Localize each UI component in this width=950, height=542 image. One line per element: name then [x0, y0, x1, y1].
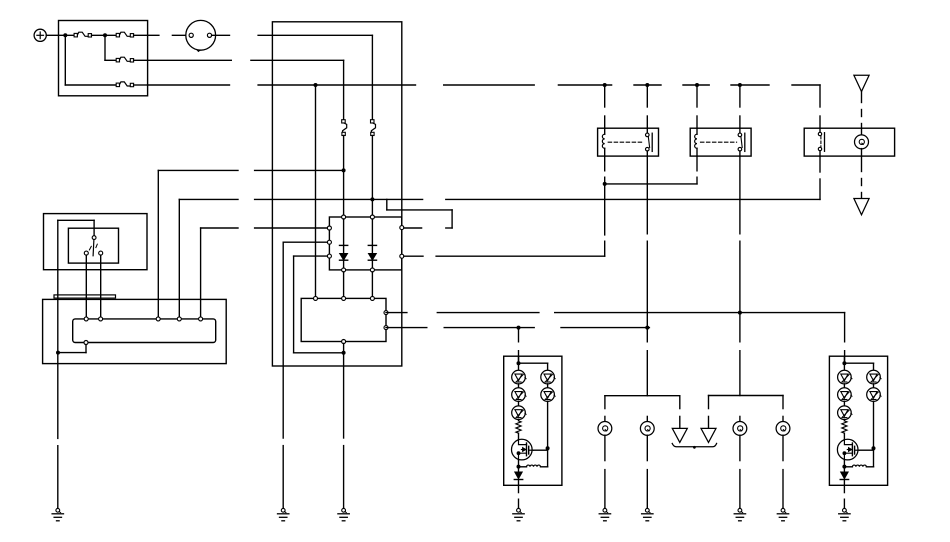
wire left cluster res link [518, 420, 520, 421]
wire bus drop to connector [315, 85, 317, 296]
wire relay2 coil out [696, 156, 698, 184]
tail bulb 3 [733, 422, 747, 436]
wire bulb 1 feed [604, 416, 606, 421]
right cluster source dot [842, 465, 846, 469]
ground G5 [642, 508, 653, 521]
switch contact L [84, 251, 88, 255]
LED right cluster L2 [838, 388, 852, 402]
wire row 3 [65, 84, 116, 86]
relay 2 contact [738, 128, 745, 156]
wire bulb 4 feed [782, 416, 784, 421]
diode box left pin 1 [327, 226, 331, 230]
wire battery to fuse box [46, 34, 58, 36]
diode box left pin 2 [327, 240, 331, 244]
under-hood fuse box [59, 21, 148, 96]
wire right cluster branch [844, 363, 873, 370]
left cluster high-mount lamp box [504, 356, 562, 485]
wire left cluster R12 [547, 384, 549, 388]
LED right cluster L3 [838, 406, 852, 420]
ground G1 [52, 508, 63, 521]
fuse F4 [116, 82, 133, 87]
wire connector bottom link [294, 352, 344, 354]
wire bulb bottom link [861, 156, 863, 198]
diode box bottom pin 2 [370, 268, 374, 272]
power bus [148, 84, 820, 86]
switch contact R [99, 251, 103, 255]
junction dot col1 [342, 168, 346, 172]
LED right cluster R1 [867, 370, 881, 384]
junction dot A [63, 33, 67, 37]
right cluster diode [840, 472, 848, 480]
connector bar [54, 295, 116, 298]
diode box right pin 1 [400, 226, 404, 230]
wire dotA down to row 3 [64, 35, 66, 85]
wire cluster right drop [844, 351, 846, 364]
wire left cluster coil link [519, 466, 527, 468]
ground node dot [56, 351, 60, 355]
marker triangle right [701, 428, 716, 442]
left cluster coil [527, 465, 541, 467]
bus junction node 5 [738, 83, 742, 87]
wire bulb 4 ground run [782, 435, 784, 508]
switch assembly connector box [73, 319, 216, 343]
wire switch feed L [58, 220, 94, 352]
ground G4 [599, 508, 610, 521]
wire ACC line [446, 198, 820, 200]
wire right cluster res link [843, 420, 845, 421]
wire bulb 2 ground run [646, 435, 648, 508]
ground G6 [734, 508, 745, 521]
left cluster MOSFET [512, 439, 534, 460]
LED left cluster R1 [541, 370, 555, 384]
left lamp bus [605, 396, 680, 409]
left cluster entry dot [517, 361, 521, 365]
wire left cluster ground run [518, 485, 520, 508]
wire left cluster entry [518, 356, 520, 370]
diode box top pin 2 [370, 215, 374, 219]
ground G3 [338, 508, 349, 521]
fuse F6 [371, 120, 376, 136]
left cluster source dot [517, 465, 521, 469]
wire fuse col1 top [343, 60, 345, 119]
wire diode pin3 left [294, 256, 328, 353]
wire col ground run 2 [282, 446, 284, 509]
brake switch [818, 128, 824, 156]
assembly bottom pin [84, 341, 88, 345]
fuse F5 [342, 120, 347, 136]
LED left cluster L1 [512, 370, 526, 384]
wire bulb 2 feed [646, 416, 648, 421]
right cluster MOSFET [837, 439, 859, 460]
wire left cluster branch [519, 363, 548, 370]
combination connector box [301, 298, 386, 341]
wire cluster left drop [518, 328, 520, 364]
relay 1 dashed link [608, 141, 644, 143]
wire left cluster L23 [518, 401, 520, 406]
switch lever [89, 240, 97, 256]
wire right cluster coil link [844, 466, 852, 468]
left cluster diode [514, 472, 522, 480]
wire diode2 to connector [371, 272, 373, 297]
wire bus to right box [819, 85, 821, 128]
wire diode pin2 left [283, 242, 327, 438]
junction dot bottom link [342, 351, 346, 355]
right lamp bus [709, 396, 784, 409]
wire right cluster R12 [873, 384, 875, 388]
wire relay1 coil feed [604, 85, 606, 128]
wire relay2 contact out [739, 156, 741, 395]
junction dot B [103, 33, 107, 37]
right cluster coil [852, 465, 866, 467]
diode box bottom pin 1 [342, 268, 346, 272]
wire coil link [605, 183, 697, 185]
LED left cluster L2 [512, 388, 526, 402]
LED left cluster L3 [512, 406, 526, 420]
junction dot coil link [603, 182, 607, 186]
wire fuse col1 mid [343, 136, 345, 218]
diode box right pin 2 [400, 254, 404, 258]
relay 1 coil [602, 128, 604, 156]
wire relay1 coil out [604, 156, 606, 256]
assembly pin 4 [177, 317, 181, 321]
right cluster entry dot [842, 361, 846, 365]
LED left cluster R2 [541, 388, 555, 402]
connector top pin 2 [342, 296, 346, 300]
assembly pin 5 [199, 317, 203, 321]
wire relay2 coil feed [696, 85, 698, 128]
diode box left pin 3 [327, 254, 331, 258]
wire right cluster fet out [843, 460, 845, 472]
wire tail feed right [386, 313, 845, 342]
indicator bulb [855, 128, 869, 156]
wire bulb 3 feed [739, 416, 741, 421]
fuse F3 [116, 57, 133, 62]
wire F3 out [134, 59, 148, 61]
bus junction node 1 [314, 83, 318, 87]
ground G7 [777, 508, 788, 521]
wire left cluster coil to col [541, 466, 548, 468]
wire right pin1 east [404, 227, 422, 229]
relay 2 coil [695, 128, 697, 156]
ignition switch [186, 20, 216, 51]
wire marker triangle right feed [708, 416, 710, 428]
diode box top pin 1 [342, 215, 346, 219]
assembly pin 3 [156, 317, 160, 321]
wire left cluster fet out [518, 460, 520, 472]
assembly pin 2 [99, 317, 103, 321]
right cluster high-mount lamp box [829, 356, 887, 485]
wire F4 out [134, 84, 148, 86]
wire diode1 to connector [343, 272, 345, 297]
wire right cluster out [843, 480, 845, 486]
wire contact R down [100, 255, 102, 317]
fuse F2 [116, 32, 133, 37]
wire fuse box row 1 [59, 34, 75, 36]
relay 1 box [598, 128, 659, 156]
junction dot tail left [645, 326, 649, 330]
connector right pin 2 [384, 326, 388, 330]
brake switch box [804, 128, 894, 156]
ground G2 [278, 508, 289, 521]
wire left cluster L12 [518, 384, 520, 388]
right cluster gate dot [872, 446, 876, 450]
wire F1 to F2 [92, 34, 117, 36]
wire step jog [387, 199, 452, 228]
dimmer switch outer box [44, 214, 148, 270]
wire to switch pin D [179, 199, 422, 317]
bus junction node 4 [695, 83, 699, 87]
relay 2 box [690, 128, 751, 156]
wire to switch pin E [201, 228, 328, 317]
tail bulb 4 [776, 422, 790, 436]
relay 1 contact [646, 128, 653, 156]
ground G8 [513, 508, 524, 521]
left cluster resistor [516, 421, 521, 433]
fuse F1 [74, 32, 91, 37]
wire left cluster R down [547, 401, 549, 448]
wire left cluster out [518, 480, 520, 486]
wire right cluster L12 [843, 384, 845, 388]
wire relay1 contact out [646, 156, 648, 396]
dimmer switch inner box [68, 228, 118, 263]
wire to switch pin C [158, 170, 343, 317]
connector bottom pin [342, 340, 346, 344]
assembly pin 1 [84, 317, 88, 321]
LED right cluster L1 [838, 370, 852, 384]
wire right cluster gate [859, 448, 873, 467]
splice bracket [672, 443, 716, 448]
wire row 2 [105, 59, 116, 61]
wire antenna top link [861, 92, 863, 129]
wire right cluster res to fet [843, 433, 845, 439]
wire tail feed left [386, 327, 649, 329]
wire right cluster R down [873, 401, 875, 448]
ground G9 [839, 508, 850, 521]
connector top pin 1 [314, 296, 318, 300]
wire ground left run [57, 353, 59, 509]
wire fuse col2 top [371, 35, 373, 119]
junction dot tail right [738, 311, 742, 315]
wire right pin2 east [404, 255, 605, 257]
wire fuse box to ignition switch [148, 34, 189, 36]
antenna symbol top [854, 75, 869, 91]
diode D1 [340, 219, 348, 268]
wire relay2 contact feed [739, 85, 741, 128]
wire fuse col2 mid [371, 136, 373, 218]
marker triangle left [672, 428, 687, 442]
wire dotB down to row 2 [104, 35, 106, 60]
wire left cluster res to fet [518, 433, 520, 439]
wire bulb 1 ground run [604, 435, 606, 508]
wire row2 to center [148, 59, 344, 61]
wire contact L down [85, 255, 87, 317]
battery positive terminal [34, 29, 46, 41]
wire right box switch out [819, 156, 821, 199]
wire right cluster entry [843, 356, 845, 370]
tail bulb 2 [640, 422, 654, 436]
tail bulb 1 [598, 422, 612, 436]
connector right pin 1 [384, 311, 388, 315]
right cluster resistor [842, 421, 847, 433]
junction dot cluster left [517, 326, 521, 330]
diode module box [329, 217, 401, 270]
gauge control module box [272, 22, 401, 366]
wire right cluster ground run [843, 485, 845, 508]
wire marker triangle left feed [679, 416, 681, 428]
diode D2 [368, 219, 376, 268]
wire ignition switch out [212, 34, 373, 36]
bus junction node 3 [645, 83, 649, 87]
connector top pin 3 [370, 296, 374, 300]
wire bulb 3 ground run [739, 435, 741, 508]
LED right cluster R2 [867, 388, 881, 402]
wire left cluster gate [534, 448, 548, 467]
switch pivot pin [92, 236, 96, 240]
junction dot col2 [370, 197, 374, 201]
wire assembly ground link [58, 345, 86, 353]
wire relay1 contact feed [646, 85, 648, 128]
relay 2 dashed link [701, 141, 737, 143]
wire right cluster L23 [843, 401, 845, 406]
light switch assembly box [43, 299, 227, 363]
wire right cluster coil to col [866, 466, 873, 468]
bus junction node 2 [603, 83, 607, 87]
antenna symbol bottom [854, 199, 869, 215]
wire col1 ground run [343, 344, 345, 509]
wire F2 out [134, 34, 148, 36]
left cluster gate dot [546, 446, 550, 450]
